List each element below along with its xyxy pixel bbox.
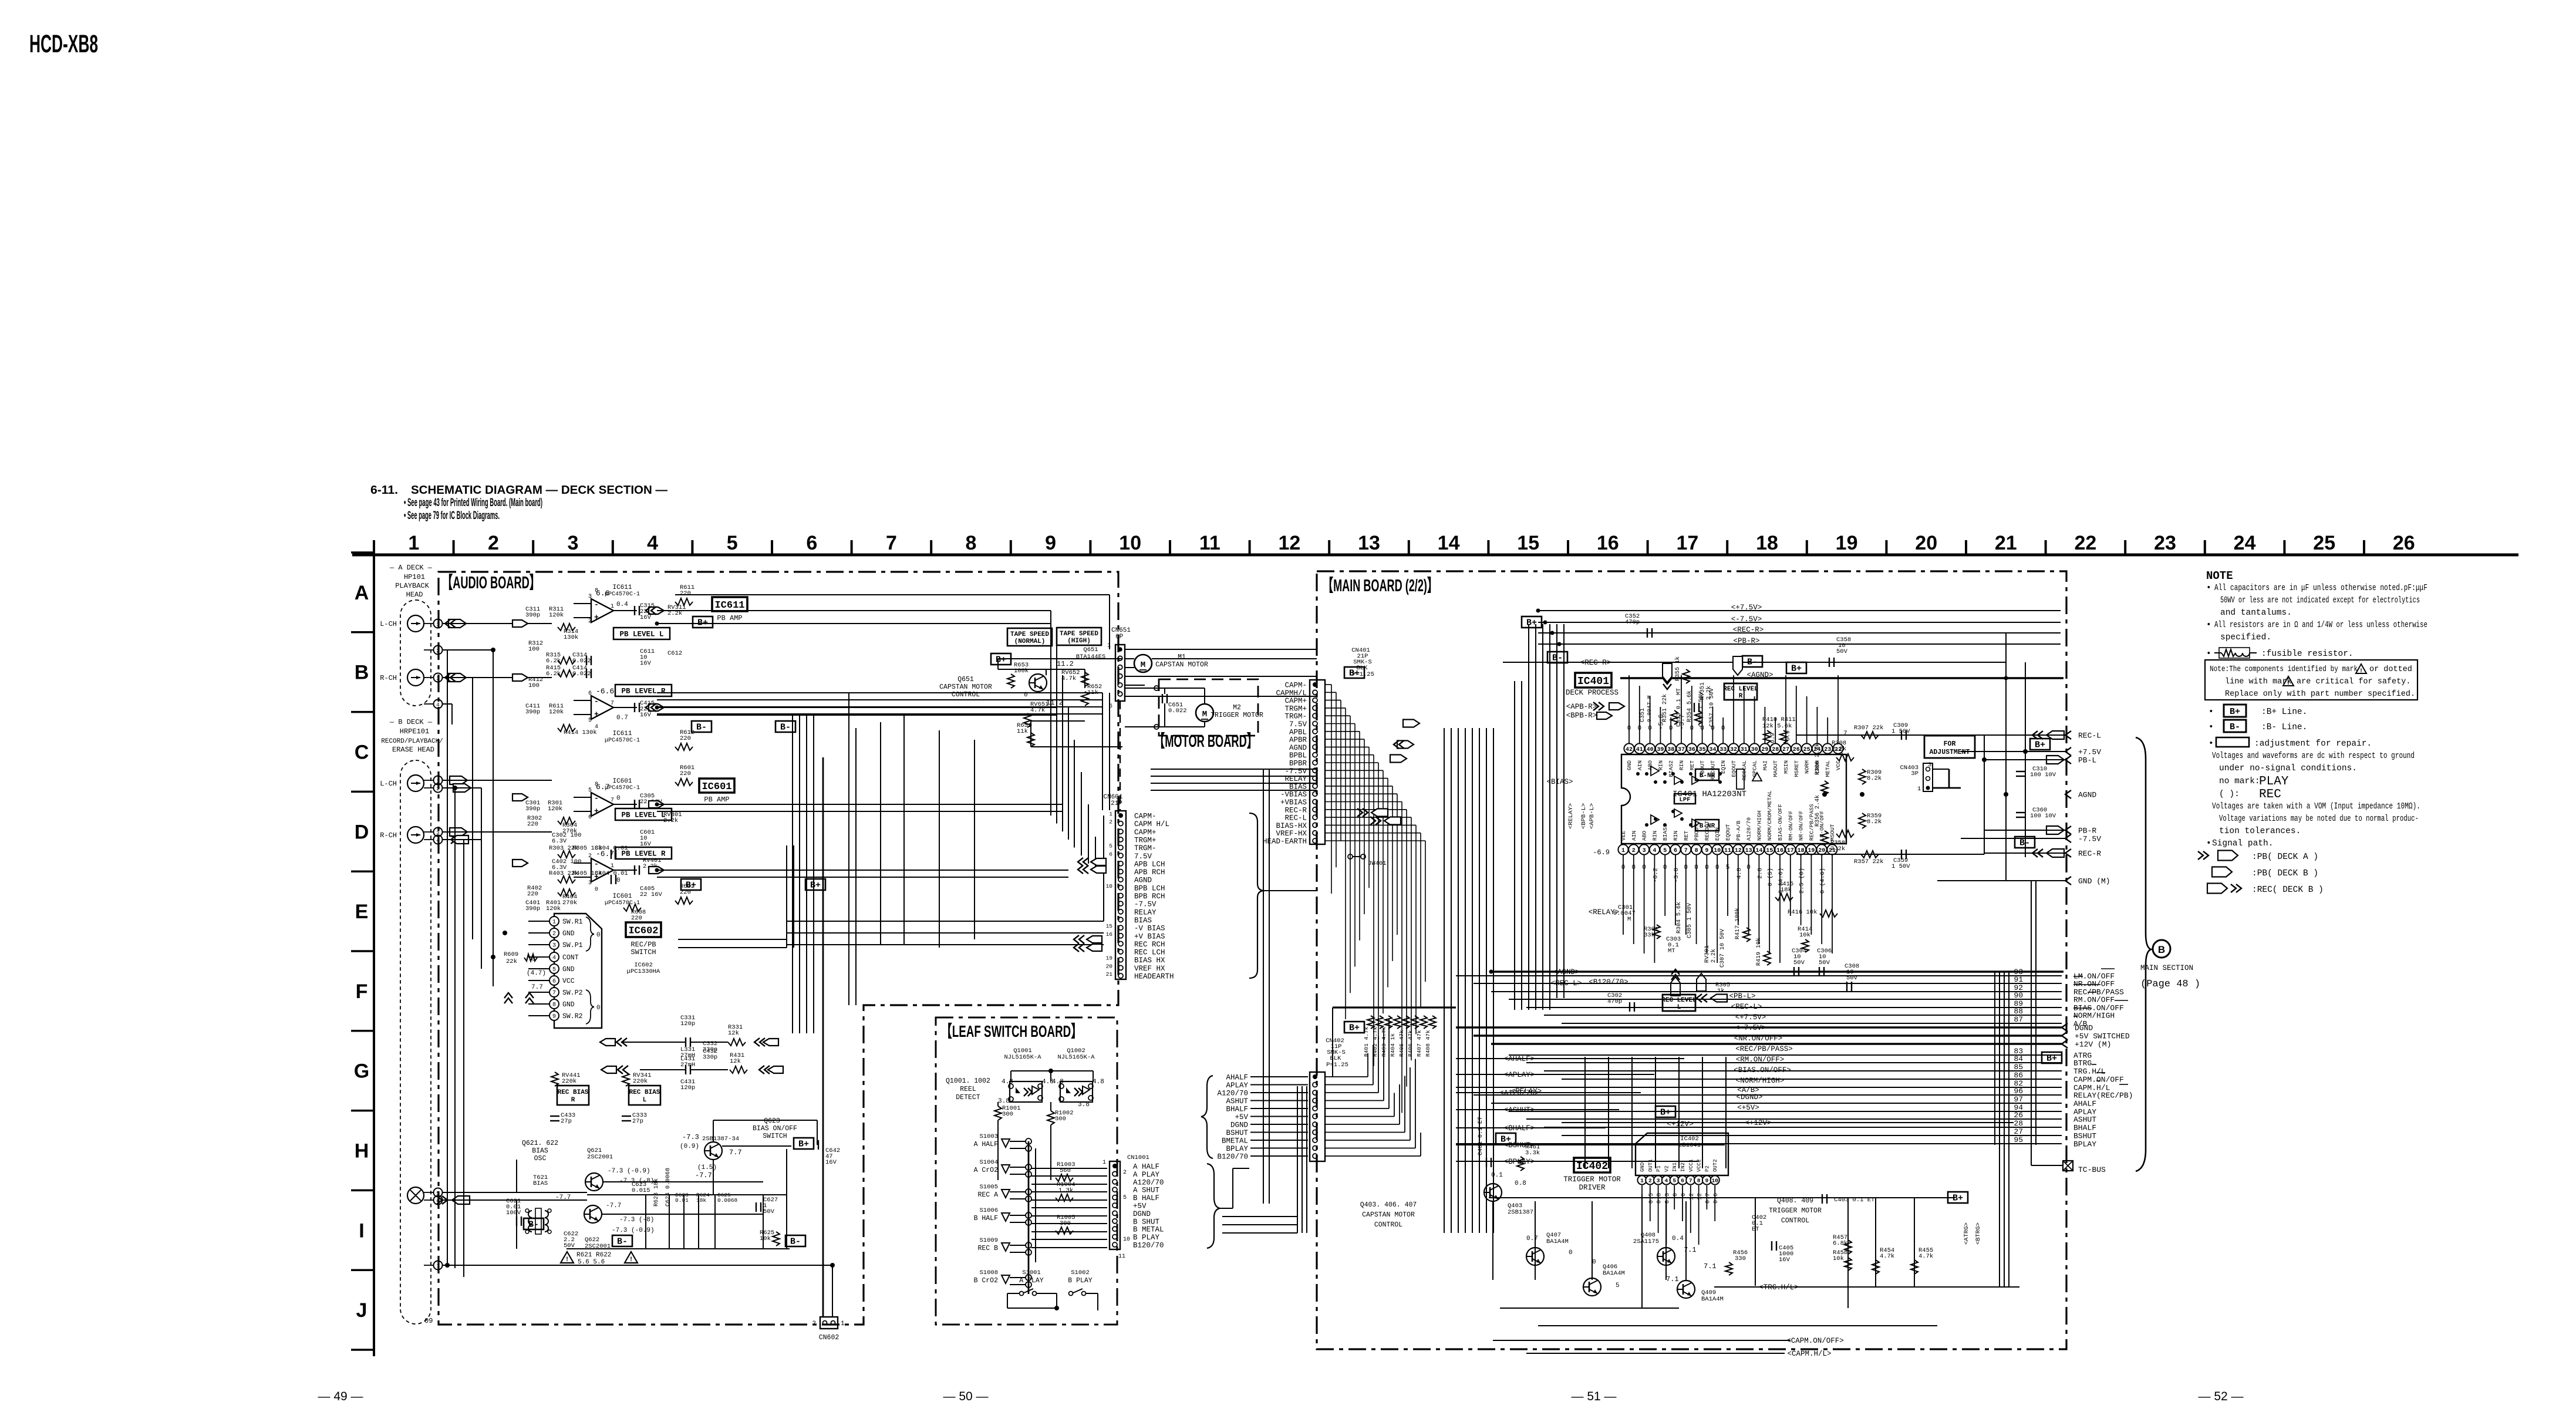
svg-text:36: 36 [1688, 747, 1695, 753]
junction dots [445, 1263, 450, 1268]
svg-text:19: 19 [1808, 848, 1815, 854]
svg-text:REC RCH: REC RCH [1134, 941, 1165, 949]
svg-text:10k: 10k [760, 1235, 771, 1242]
leaf switch board border [936, 1017, 1117, 1325]
vertical wires below IC401 pins [1623, 864, 1624, 935]
svg-text:(1.5): (1.5) [697, 1164, 717, 1171]
svg-text:PLAYBACK: PLAYBACK [395, 582, 429, 590]
svg-text:220: 220 [527, 891, 538, 898]
svg-text:-3.8: -3.8 [1673, 868, 1680, 882]
svg-text:TRIGGER MOTOR: TRIGGER MOTOR [1769, 1207, 1822, 1215]
svg-text:B+: B+ [1791, 664, 1802, 674]
svg-text:Voltages are taken with a VOM: Voltages are taken with a VOM (Input imp… [2212, 802, 2420, 811]
svg-text:6.8k: 6.8k [1833, 1240, 1847, 1247]
svg-text:100 10V: 100 10V [2030, 813, 2056, 820]
svg-text:18: 18 [1756, 532, 1778, 554]
svg-text:2SB1387-34: 2SB1387-34 [702, 1135, 739, 1143]
svg-text:8.2k: 8.2k [1867, 818, 1882, 825]
svg-text:25: 25 [2313, 532, 2335, 554]
svg-text:MAI: MAI [1762, 760, 1768, 770]
svg-text:B-: B- [696, 723, 707, 733]
up arrows below IC401 [1671, 977, 1680, 996]
svg-text:R: R [571, 1097, 575, 1104]
svg-text:PB LEVEL L: PB LEVEL L [621, 811, 665, 820]
vertical feeders from top bus [1528, 624, 1529, 998]
svg-text:4.7k: 4.7k [1918, 1253, 1933, 1260]
svg-text:5: 5 [1616, 1282, 1620, 1289]
svg-text:1 50V: 1 50V [1891, 863, 1910, 870]
svg-text:B+: B+ [1660, 1108, 1671, 1118]
svg-text:5: 5 [588, 787, 592, 794]
svg-text:B+: B+ [1349, 1023, 1360, 1033]
svg-text:100 10V: 100 10V [2030, 771, 2056, 779]
svg-text:BIAS: BIAS [1134, 916, 1152, 925]
svg-text:A: A [355, 582, 369, 604]
svg-text:• See page 79 for IC Block Dia: • See page 79 for IC Block Diagrams. [404, 510, 500, 522]
svg-text:M: M [1141, 661, 1145, 670]
svg-text:0: 0 [596, 932, 601, 939]
Q622 transistor 2SC2001 [584, 1205, 602, 1223]
svg-text:BPBL: BPBL [1289, 752, 1307, 760]
wire bundle leaf area to main board [1222, 1216, 1297, 1217]
svg-text:12: 12 [1697, 1193, 1704, 1200]
svg-text:120p: 120p [680, 1084, 695, 1091]
svg-text:!: ! [2287, 680, 2290, 687]
wires from IC602 to right [787, 921, 1104, 922]
main board border [1317, 571, 2066, 1349]
B-NR box upper [1695, 769, 1719, 780]
fusible resistors R621 R622 with warning triangles [561, 1252, 574, 1263]
svg-text:0: 0 [596, 1005, 601, 1012]
svg-text:Voltage variations may be note: Voltage variations may be noted due to n… [2219, 814, 2419, 824]
vertical wires above IC401 pins [1628, 675, 1630, 733]
horizontal bundle under motor board [1151, 769, 1317, 770]
svg-text:PB-A/B: PB-A/B [1735, 820, 1742, 841]
svg-text:33: 33 [1719, 747, 1727, 753]
svg-text:F: F [356, 980, 368, 1003]
svg-text:TRGM-: TRGM- [1134, 844, 1156, 852]
svg-text:RELAY(REC/PB): RELAY(REC/PB) [2073, 1091, 2133, 1100]
svg-text:6: 6 [588, 690, 592, 697]
svg-text:•: • [2209, 739, 2214, 749]
svg-text:8: 8 [966, 532, 977, 554]
svg-text:CAPMH/L: CAPMH/L [1276, 689, 1307, 697]
svg-text:CONT: CONT [562, 954, 579, 962]
svg-text:4.7k: 4.7k [1880, 1253, 1894, 1260]
svg-text:TRGM+: TRGM+ [1134, 836, 1156, 844]
svg-text:-7.3: -7.3 [682, 1133, 699, 1141]
A deck playback head outline [400, 600, 431, 706]
long vertical wires on audio board left [447, 650, 448, 1265]
svg-text:BIAS: BIAS [532, 1147, 548, 1155]
svg-text:4: 4 [1665, 1178, 1668, 1184]
svg-text:DETECT: DETECT [956, 1094, 980, 1101]
svg-text:12: 12 [1278, 532, 1300, 554]
svg-text:3: 3 [588, 594, 592, 600]
svg-text::PB( DECK A ): :PB( DECK A ) [2252, 852, 2318, 862]
svg-text:FOR: FOR [1944, 740, 1956, 748]
B+ box above C401 [1496, 1133, 1516, 1144]
B+ box right area [2030, 739, 2050, 750]
svg-text:PLAY: PLAY [2259, 775, 2289, 788]
svg-text:OUT2: OUT2 [1712, 1159, 1718, 1172]
svg-text:18k: 18k [1781, 887, 1792, 894]
svg-text:33k: 33k [1644, 932, 1655, 939]
svg-text:BA1A4M: BA1A4M [1701, 1296, 1724, 1303]
svg-text:1: 1 [841, 1320, 845, 1327]
B+ box middle main board [1655, 1106, 1675, 1117]
svg-text:6: 6 [588, 814, 592, 821]
PB LEVEL R box (IC611) [615, 685, 672, 696]
svg-text:5: 5 [1109, 843, 1112, 850]
svg-text:(HIGH): (HIGH) [1067, 638, 1091, 645]
double chevron into REC LEVEL L [1697, 994, 1702, 1002]
svg-text:TAPE SPEED: TAPE SPEED [1060, 631, 1098, 638]
svg-text:<+7.5V>: <+7.5V> [1731, 604, 1762, 612]
internal junction dots [1636, 772, 1640, 776]
svg-text:R417 100k: R417 100k [1734, 908, 1741, 939]
svg-text:<BPB-R>: <BPB-R> [1566, 712, 1597, 720]
svg-text:R351 22k: R351 22k [1661, 694, 1668, 722]
svg-text:+: + [594, 710, 599, 719]
svg-text:R621 R622: R621 R622 [576, 1252, 611, 1259]
wire bus from A deck heads [442, 623, 552, 624]
svg-text:B+: B+ [1349, 669, 1360, 679]
svg-text::REC( DECK B ): :REC( DECK B ) [2252, 885, 2324, 895]
svg-text:39: 39 [1657, 747, 1664, 753]
svg-text:APLAY: APLAY [1226, 1081, 1248, 1090]
svg-text:-: - [594, 697, 599, 706]
svg-text:16V: 16V [640, 660, 652, 667]
svg-text:-VBIAS: -VBIAS [1280, 791, 1307, 799]
svg-text:1.3k: 1.3k [1058, 1187, 1073, 1194]
Q651 capstan motor control transistor [1029, 674, 1047, 692]
svg-text:B+: B+ [1501, 1135, 1511, 1145]
svg-text:BPLAY: BPLAY [2073, 1140, 2096, 1149]
svg-text:21P: 21P [1111, 800, 1122, 807]
svg-text:24: 24 [2234, 532, 2256, 554]
svg-text:2: 2 [588, 853, 592, 860]
svg-text:0.8: 0.8 [1515, 1180, 1526, 1187]
svg-text:4.7k: 4.7k [1061, 675, 1076, 682]
svg-text:23: 23 [2154, 532, 2176, 554]
svg-text:SW.P1: SW.P1 [562, 942, 583, 949]
svg-text:1: 1 [552, 919, 556, 926]
svg-text:12k: 12k [730, 1058, 741, 1065]
svg-text:C624 0.0068: C624 0.0068 [665, 1168, 672, 1207]
+7.5V -7.5V GND wires [1961, 751, 2065, 752]
svg-text:0.7: 0.7 [1526, 1235, 1538, 1242]
svg-text:4.8: 4.8 [1052, 1079, 1064, 1086]
Q409 transistor BA1A4M [1677, 1281, 1695, 1298]
signal arrow PB deck A at L-CH [449, 619, 466, 628]
svg-text::PB( DECK B ): :PB( DECK B ) [2252, 869, 2318, 878]
svg-text:12: 12 [1735, 848, 1742, 854]
svg-text:R405 47k: R405 47k [1398, 1030, 1405, 1057]
svg-text::fusible resistor.: :fusible resistor. [2261, 649, 2354, 659]
svg-text:10: 10 [1123, 1236, 1130, 1243]
svg-text:LPF: LPF [1680, 796, 1691, 803]
IC601 boxed label [699, 779, 734, 793]
svg-text:ERASE HEAD: ERASE HEAD [392, 746, 434, 754]
svg-text:— A DECK —: — A DECK — [389, 564, 433, 572]
svg-text:LB1641: LB1641 [1678, 1142, 1701, 1149]
svg-text:•: • [2209, 707, 2214, 717]
svg-text:C307 10 50V: C307 10 50V [1719, 929, 1726, 968]
svg-text:16V: 16V [1779, 1256, 1791, 1263]
svg-text:<RELAY>: <RELAY> [1567, 803, 1574, 829]
small amp triangles inside IC401 [1674, 776, 1682, 784]
svg-text:40: 40 [1647, 747, 1654, 753]
B+ box near +12V [2042, 1052, 2062, 1063]
svg-text:A120/70: A120/70 [1133, 1178, 1164, 1187]
svg-text:EQOUT: EQOUT [1725, 824, 1731, 841]
bundle from PB arrows to IC602 zone [678, 939, 787, 940]
svg-text:RIN: RIN [1651, 831, 1658, 841]
svg-text:SW.R2: SW.R2 [562, 1013, 583, 1020]
svg-text:GND: GND [1626, 760, 1633, 770]
svg-text:50WV or less are not indicated: 50WV or less are not indicated except fo… [2220, 596, 2420, 605]
svg-text:34: 34 [1709, 747, 1716, 753]
svg-text:-6.9: -6.9 [1593, 848, 1610, 857]
svg-text:220k: 220k [562, 1078, 576, 1085]
svg-text:50V: 50V [1819, 959, 1830, 966]
svg-text:M: M [1202, 710, 1207, 719]
svg-text:REC BIAS: REC BIAS [629, 1089, 660, 1096]
svg-text:0: 0 [616, 877, 621, 884]
svg-text:Signal path.: Signal path. [2212, 839, 2273, 848]
svg-text:B-NR: B-NR [1700, 823, 1715, 830]
REC LEVEL R box [1724, 683, 1757, 700]
svg-text:270k: 270k [562, 899, 577, 907]
svg-text:Q651: Q651 [1083, 646, 1098, 653]
svg-text:SCHEMATIC DIAGRAM — DECK SECTI: SCHEMATIC DIAGRAM — DECK SECTION — [411, 484, 667, 497]
svg-text:3: 3 [1643, 848, 1646, 854]
svg-text:3.8: 3.8 [1078, 1101, 1090, 1108]
svg-text:0.022: 0.022 [1168, 707, 1187, 715]
svg-text:100k: 100k [1014, 668, 1029, 675]
svg-text:R-CH: R-CH [380, 674, 397, 682]
svg-text:CAPM.ON/OFF: CAPM.ON/OFF [2073, 1076, 2124, 1084]
svg-text:0.4: 0.4 [1672, 1235, 1684, 1242]
svg-text:2: 2 [552, 931, 556, 938]
svg-text:ASHUT: ASHUT [2073, 1116, 2096, 1124]
svg-text:0.7: 0.7 [1705, 1193, 1711, 1204]
svg-text:REC-L: REC-L [2078, 732, 2101, 740]
svg-text:BIAS-HX: BIAS-HX [1276, 822, 1307, 830]
svg-text:11.2: 11.2 [1057, 660, 1074, 668]
svg-text:AHALF: AHALF [1226, 1074, 1248, 1082]
svg-text:A HALF: A HALF [1133, 1163, 1159, 1171]
svg-text:VREF HX: VREF HX [1134, 965, 1165, 973]
svg-text:1: 1 [611, 604, 614, 610]
svg-text:32: 32 [1730, 747, 1737, 753]
TAPE SPEED HIGH box [1057, 628, 1101, 645]
row ticks and letters A-J [351, 551, 374, 554]
svg-text:<RELAY>: <RELAY> [1589, 908, 1620, 916]
svg-text:390p: 390p [525, 806, 540, 813]
svg-text:0.015: 0.015 [632, 1187, 650, 1194]
B deck head pins 1-7 [434, 776, 443, 785]
svg-text:<ATRG>: <ATRG> [1963, 1222, 1970, 1245]
svg-text:10: 10 [1119, 532, 1141, 554]
svg-text:8: 8 [595, 588, 598, 594]
main section bracket [2136, 737, 2151, 1171]
down arrows above IC401 [1663, 679, 1671, 684]
connection dots scatter [1536, 609, 1540, 613]
svg-text:-: - [594, 860, 599, 868]
svg-text:<AGND>: <AGND> [1746, 671, 1773, 679]
safety note box [2205, 660, 2417, 700]
svg-text:8: 8 [595, 781, 598, 788]
svg-text:RELAY: RELAY [1134, 908, 1156, 916]
svg-text:20: 20 [1818, 848, 1825, 854]
svg-text:29: 29 [1761, 747, 1768, 753]
svg-text:REC BIAS: REC BIAS [558, 1089, 589, 1096]
svg-text:PB AMP: PB AMP [704, 796, 729, 804]
svg-text:APBL: APBL [1289, 728, 1307, 736]
svg-text:CAPM-: CAPM- [1284, 682, 1307, 690]
REC-L left arrows [2032, 731, 2038, 739]
svg-text:REC-R: REC-R [2078, 850, 2101, 858]
svg-text:10: 10 [1711, 1178, 1718, 1184]
vertical bundle inside main board left [1514, 681, 1515, 1010]
svg-text:All capacitors are in μF unles: All capacitors are in μF unless otherwis… [2214, 584, 2427, 593]
signal arrows near CN401 [1397, 741, 1414, 749]
svg-text:BSHUT: BSHUT [2073, 1132, 2096, 1141]
bias oscillator wires [517, 1192, 587, 1193]
svg-text:0.0047 M: 0.0047 M [1646, 695, 1653, 722]
thick +5V rail into CN402 zone [1333, 1006, 1456, 1008]
svg-text:D: D [355, 821, 369, 843]
svg-text:( ):: ( ): [2219, 790, 2240, 799]
svg-text:BPLAY: BPLAY [1226, 1145, 1248, 1153]
svg-text::adjustment for repair.: :adjustment for repair. [2254, 739, 2372, 749]
svg-text:1: 1 [408, 532, 419, 554]
svg-text:220: 220 [680, 735, 691, 742]
svg-text:GND: GND [562, 930, 575, 938]
svg-text:μPC1330HA: μPC1330HA [627, 968, 660, 975]
JW401 jumper [1348, 854, 1353, 859]
svg-text:27mH: 27mH [680, 1062, 695, 1069]
svg-text:RIN: RIN [1673, 831, 1679, 841]
svg-text:— 51 —: — 51 — [1571, 1390, 1616, 1403]
svg-text:27p: 27p [632, 1118, 643, 1125]
svg-text:<REC-R>: <REC-R> [1580, 659, 1611, 667]
svg-text:42: 42 [1626, 747, 1633, 753]
svg-text:0.5: 0.5 [1648, 1193, 1655, 1204]
B+ box near IC611 [693, 616, 713, 628]
CN402 11P connector [1310, 1072, 1325, 1161]
svg-text:RECORD/PLAYBACK/: RECORD/PLAYBACK/ [381, 738, 443, 745]
svg-text:B+: B+ [1526, 618, 1537, 628]
svg-text:NORM: NORM [1804, 760, 1810, 774]
svg-text:0 (4.6): 0 (4.6) [1819, 868, 1826, 894]
up-chevron arrows left of IC602 [504, 998, 512, 1003]
motor board wires [1125, 688, 1171, 689]
junction dots right area [2004, 792, 2008, 797]
svg-text:and tantalums.: and tantalums. [2220, 608, 2292, 618]
svg-text:<APB-L>: <APB-L> [1589, 803, 1596, 829]
svg-text:TC-BUS: TC-BUS [2078, 1165, 2106, 1174]
svg-text:RV301: RV301 [1704, 945, 1711, 963]
svg-text:HCD-XB8: HCD-XB8 [29, 30, 98, 58]
svg-text:H: H [355, 1140, 369, 1162]
svg-text:09: 09 [424, 1317, 433, 1325]
svg-text:<CAPM.ON/OFF>: <CAPM.ON/OFF> [1786, 1337, 1844, 1345]
svg-text:EQIN: EQIN [1714, 827, 1721, 841]
svg-text:REC LCH: REC LCH [1134, 949, 1165, 957]
Q1001 photo-interrupter [1010, 1081, 1042, 1102]
svg-text:C351: C351 [1640, 708, 1646, 722]
svg-text:B-: B- [790, 1237, 801, 1247]
svg-text:REC LEVEL: REC LEVEL [1723, 686, 1758, 693]
svg-text:7.7: 7.7 [729, 1148, 742, 1157]
svg-text:27p: 27p [561, 1118, 572, 1125]
IC402 area wires [1492, 1201, 1493, 1280]
wires CN402 to leaf bracket [1250, 1076, 1308, 1077]
svg-text:M1: M1 [1178, 653, 1186, 661]
svg-text:26: 26 [1793, 747, 1800, 753]
svg-text:28: 28 [1772, 747, 1779, 753]
svg-text:B-: B- [1747, 658, 1758, 668]
svg-text:HEAD: HEAD [406, 591, 423, 599]
svg-text:IC601: IC601 [702, 781, 731, 793]
svg-text:2.2k: 2.2k [1830, 845, 1845, 852]
svg-text:3: 3 [552, 943, 556, 949]
svg-text:μPC4570C-1: μPC4570C-1 [605, 737, 640, 744]
svg-text:VCC: VCC [562, 978, 575, 985]
reel detect lower wires [997, 1102, 999, 1106]
svg-text:2: 2 [588, 618, 592, 625]
svg-text:7: 7 [1684, 848, 1688, 854]
svg-text:MSIN: MSIN [1783, 760, 1789, 774]
svg-text:390p: 390p [525, 612, 540, 619]
svg-text::B- Line.: :B- Line. [2261, 723, 2307, 732]
svg-text:no mark:: no mark: [2219, 777, 2260, 786]
svg-text:B-: B- [2230, 722, 2240, 732]
IC401 bottom pins 1-21 [1618, 844, 1628, 854]
svg-text:3: 3 [588, 880, 592, 887]
svg-text:100: 100 [528, 646, 540, 653]
svg-text:B-: B- [1552, 653, 1563, 663]
REC-R left arrows [2032, 849, 2038, 857]
svg-text:GND: GND [562, 966, 575, 973]
svg-text:7: 7 [1689, 1178, 1692, 1184]
svg-text:<REC-R>: <REC-R> [1733, 626, 1764, 634]
svg-text:0.0068: 0.0068 [717, 1197, 738, 1204]
svg-text:2.8: 2.8 [1756, 868, 1764, 879]
svg-text:220: 220 [680, 590, 691, 597]
svg-text:NJL5165K-A: NJL5165K-A [1004, 1054, 1041, 1061]
svg-text:-: - [594, 794, 599, 803]
svg-text:NOTE: NOTE [2206, 570, 2233, 582]
svg-text:B METAL: B METAL [1133, 1226, 1164, 1234]
svg-text:ADJUSTMENT: ADJUSTMENT [1929, 749, 1970, 756]
svg-text:REC-L: REC-L [1284, 814, 1307, 823]
svg-text:【MAIN BOARD (2/2)】: 【MAIN BOARD (2/2)】 [1323, 576, 1438, 595]
svg-text:120k: 120k [549, 612, 564, 619]
svg-text:C401 0.1 ET: C401 0.1 ET [1478, 1117, 1484, 1155]
svg-text:VCC: VCC [1835, 760, 1842, 770]
svg-text:APB LCH: APB LCH [1134, 860, 1165, 868]
svg-text:17: 17 [1676, 532, 1698, 554]
svg-text:I: I [359, 1219, 364, 1242]
svg-text:IC611: IC611 [714, 600, 744, 611]
B-NR box lower [1695, 820, 1719, 831]
PB-L arrow [2046, 756, 2064, 764]
svg-text:96: 96 [2014, 1087, 2023, 1096]
